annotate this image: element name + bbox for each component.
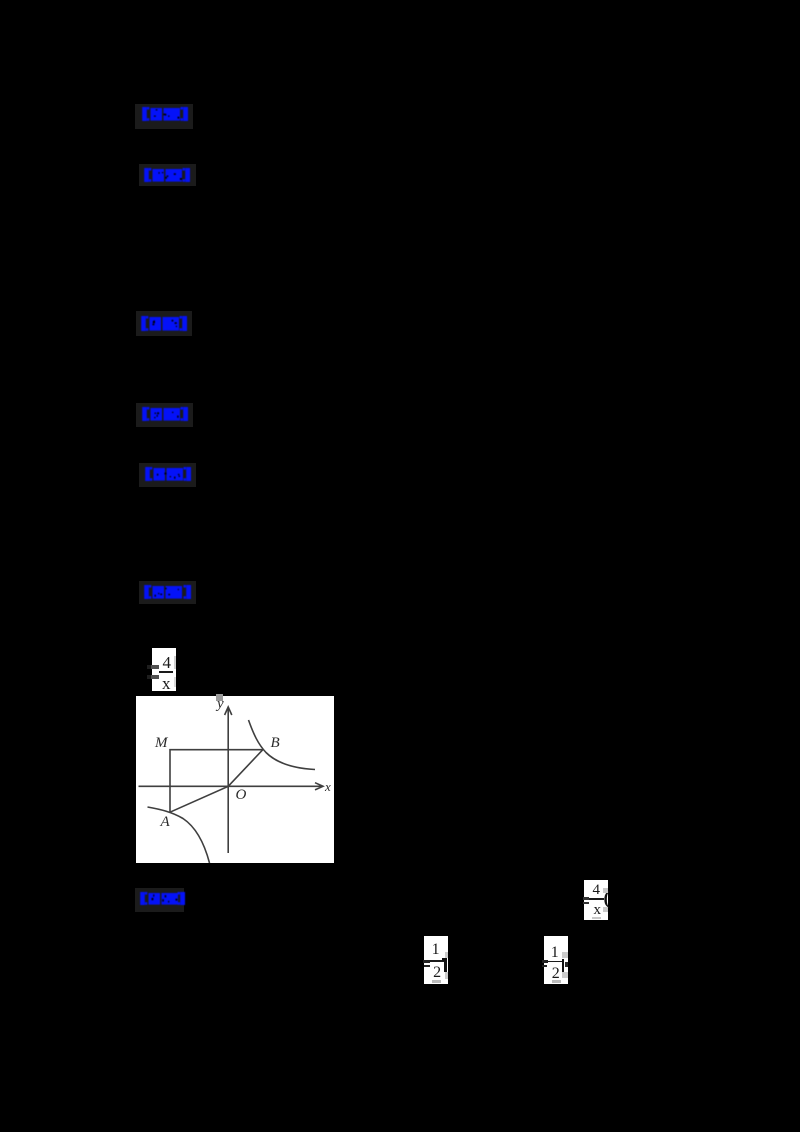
gray artifacts second 1/2: [562, 952, 568, 958]
label halo 5: [139, 463, 196, 487]
label halo 1: [135, 104, 193, 129]
segment A-O-B: [170, 750, 263, 813]
vertical bar after second 1/2: [562, 959, 564, 972]
label halo 4: [136, 403, 193, 427]
fraction y=4/x (inline, mid page) white box: [152, 648, 176, 691]
label halo 2: [139, 164, 196, 186]
gray artifacts first 1/2: [445, 952, 448, 958]
blue label 4: [141, 406, 189, 427]
gray artifact block above figure: [216, 694, 223, 701]
svg-text:x: x: [324, 779, 331, 794]
label halo 6: [139, 581, 196, 604]
equals sign before 4/x: [147, 665, 151, 669]
hyperbola branch Q3: [148, 807, 210, 863]
x axis arrowhead: [315, 783, 323, 790]
svg-text:B: B: [271, 735, 280, 751]
rectangle lines M: [170, 750, 263, 813]
blue label 6: [143, 584, 192, 605]
label halo 7: [135, 888, 184, 912]
blue label 2: [143, 167, 191, 188]
y axis: [227, 708, 229, 854]
partial glyph right of second 1/2: [565, 962, 568, 968]
blue label 7: [139, 891, 186, 911]
fraction =1/2| second: [544, 936, 569, 984]
partial paren after 4/x: [604, 888, 614, 905]
x axis: [139, 785, 323, 787]
svg-text:M: M: [154, 735, 169, 751]
fraction =4/x( bottom right: [584, 880, 608, 920]
gray artifacts around 4/x box: [603, 888, 608, 893]
svg-text:A: A: [160, 814, 171, 830]
vertical bar after first 1/2: [444, 958, 447, 972]
4/x glyphs: [152, 648, 176, 691]
blue label 1: [141, 106, 189, 127]
labels: [154, 696, 331, 830]
blue label 5: [144, 466, 192, 487]
figure: hyperbola graph: [136, 696, 334, 863]
svg-text:O: O: [236, 787, 247, 803]
hyperbola branch Q1: [249, 720, 316, 770]
gray slivers at right edge of 4/x box: [174, 656, 177, 669]
y axis arrowhead: [225, 707, 232, 715]
fraction =1/2| first: [424, 936, 449, 985]
label halo 3: [136, 311, 192, 336]
blue label 3: [140, 315, 188, 337]
gray block above y label: [139, 707, 324, 863]
